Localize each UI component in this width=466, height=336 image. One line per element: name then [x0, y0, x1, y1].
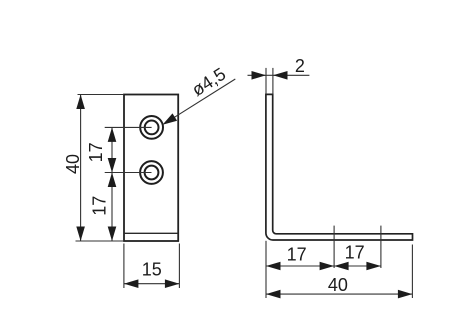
- svg-text:40: 40: [328, 275, 348, 295]
- side view L-profile outline: [266, 94, 413, 240]
- svg-text:17: 17: [90, 196, 110, 216]
- svg-text:15: 15: [142, 259, 162, 279]
- extension line right (side view dims): [411, 245, 413, 299]
- dimension 40 line (side view) with arrows: [266, 293, 412, 295]
- dimension 40 label (side view): [328, 275, 348, 295]
- svg-text:ø4,5: ø4,5: [188, 64, 229, 100]
- dimension 17 right label (side view): [345, 242, 365, 262]
- hole position mark line 2 (side view): [380, 226, 382, 268]
- svg-text:17: 17: [287, 244, 307, 264]
- dimension 17 left (side view) line with arrows: [266, 265, 334, 267]
- hole diameter label ø4,5: [188, 64, 229, 100]
- dimension 40 label (left view): [63, 154, 83, 174]
- extension line bottom for 40 and 17 dims: [76, 240, 125, 242]
- hole H1 inner circle: [145, 121, 159, 135]
- front view bend line: [124, 232, 178, 234]
- hole H1 outer circle: [140, 116, 163, 139]
- extension line left (side view dims): [265, 241, 267, 298]
- hole position mark line 1 (side view): [333, 226, 335, 268]
- dimension 2 label: [295, 56, 305, 76]
- dimension 17 left label (side view): [287, 244, 307, 264]
- dimension 15 label: [142, 259, 162, 279]
- leader line for hole diameter: [173, 79, 235, 118]
- dimension 40 vertical line with arrows: [80, 95, 82, 242]
- svg-text:17: 17: [345, 242, 365, 262]
- extension line top for 40 dim: [78, 94, 125, 96]
- leader arrowhead pointing at hole H1: [163, 113, 178, 124]
- front view plate outline: [124, 95, 178, 242]
- dimension 15 line with arrows: [124, 283, 179, 285]
- hole H2 outer circle: [140, 161, 163, 184]
- svg-text:40: 40: [63, 154, 83, 174]
- dimension 17 right (side view) line: [334, 265, 381, 267]
- svg-text:17: 17: [86, 142, 106, 162]
- extension line hole H1 center: [105, 126, 152, 128]
- svg-text:2: 2: [295, 56, 305, 76]
- dimension 2 line with outside arrows: [248, 74, 310, 76]
- dimension 17 lower label (left view): [90, 196, 110, 216]
- extension lines for 15 dim: [124, 244, 179, 289]
- dimension 17 upper vertical line with arrows: [111, 127, 113, 241]
- extension line hole H2 center: [105, 172, 152, 174]
- hole H2 inner circle: [145, 166, 159, 180]
- extension lines for 2 dim: [266, 68, 273, 94]
- dimension 17 upper label (left view): [86, 142, 106, 162]
